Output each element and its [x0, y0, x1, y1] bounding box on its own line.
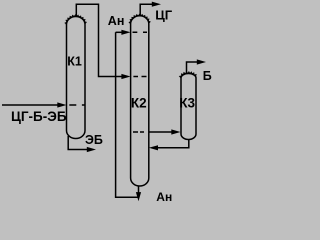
wire K3 bottoms recycle to K2 — [156, 140, 189, 148]
arrowhead K2 to K3 — [171, 129, 180, 134]
arrowhead B outlet — [197, 59, 206, 64]
tray dashes in K1 at feed level — [69, 104, 85, 106]
svg-text:ЦГ-Б-ЭБ: ЦГ-Б-ЭБ — [11, 109, 67, 124]
svg-text:Ан: Ан — [156, 190, 172, 204]
svg-text:ЭБ: ЭБ — [85, 133, 103, 147]
svg-text:Б: Б — [203, 69, 212, 83]
svg-text:Ан: Ан — [108, 14, 125, 28]
serration teeth on K1 cap — [65, 15, 86, 25]
arrowhead feed into K1 — [57, 102, 66, 107]
svg-text:К2: К2 — [131, 95, 147, 110]
wire K1 top riser over to K2 feed — [76, 4, 124, 76]
svg-text:К3: К3 — [179, 95, 195, 110]
serration teeth on K3 top — [180, 72, 197, 78]
column K3 vessel — [181, 74, 196, 140]
tray dashes in K2 at K1 feed level — [133, 76, 146, 78]
arrowhead EB outlet — [87, 147, 96, 152]
arrowhead K3 recycle into K2 — [149, 145, 158, 150]
wire K2 side draw to K3 — [149, 131, 174, 133]
column K2 vessel — [131, 16, 149, 186]
arrowhead An bottoms down — [136, 192, 141, 201]
serration teeth on K2 cap — [129, 14, 150, 23]
tray dashes in K2 at An feed level — [133, 31, 148, 33]
wire K2 top riser to CG — [140, 4, 154, 16]
column K1 vessel — [67, 17, 86, 139]
arrowhead CG outlet — [152, 2, 161, 7]
wire feed line into K1 — [2, 104, 60, 106]
wire An feed into K2 top — [116, 31, 124, 33]
arrowhead An into K2 top — [121, 30, 130, 35]
svg-text:ЦГ: ЦГ — [155, 7, 172, 22]
svg-text:К1: К1 — [67, 54, 82, 68]
wire K1 bottoms outlet to EB — [68, 136, 89, 150]
arrowhead K1 top into K2 — [121, 74, 130, 79]
wire An recycle vertical — [116, 32, 139, 197]
tray dashes in K2 at side draw level — [133, 131, 144, 133]
wire K2 bottoms down — [138, 186, 140, 194]
wire K3 top riser to B — [187, 62, 200, 74]
